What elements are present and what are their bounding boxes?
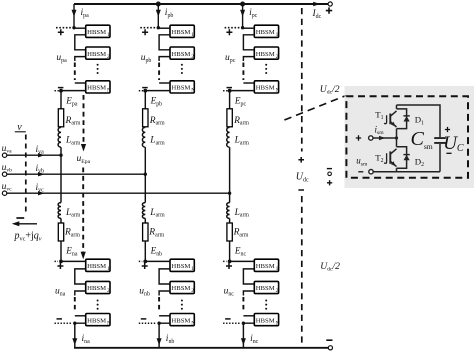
label + (u_pa): [56, 27, 74, 29]
power flow arrow: [16, 223, 37, 225]
inductor L_arm lower b: [142, 203, 145, 219]
wire L-R lower a: [60, 218, 62, 223]
chain dots lower b: [181, 300, 183, 310]
boundary v (dashed): [25, 135, 27, 214]
svg-text:Rarm: Rarm: [149, 116, 165, 127]
svg-text:inb: inb: [166, 334, 175, 345]
wire L-R lower b: [144, 218, 146, 223]
wire node to L_arm lower a: [60, 155, 62, 202]
resistor R_arm upper b: [143, 109, 148, 127]
wire chain b u2-dots: [159, 57, 170, 61]
current i_pa arrow: [72, 10, 77, 17]
svg-text:una: una: [55, 287, 66, 298]
current i_vc arrow: [38, 191, 45, 195]
svg-text:Udc/2: Udc/2: [320, 261, 340, 273]
current Idc arrow: [313, 2, 320, 7]
v underline: [15, 131, 26, 133]
wire L-R lower c: [229, 218, 231, 223]
wire chain c upper dashed: [242, 63, 244, 81]
node AC terminal u_vb: [2, 172, 6, 176]
svg-text:HBSM: HBSM: [171, 85, 190, 92]
wire HBSMN to E_pc: [230, 91, 255, 109]
submodule HBSM1 lower b: [170, 259, 194, 271]
node chain c bottom: [242, 322, 245, 325]
svg-text:Idc: Idc: [312, 9, 322, 20]
wire R to junction lower c: [229, 241, 231, 261]
wire chain c to bottom bus: [243, 323, 254, 348]
submodule HBSM2 upper a: [86, 47, 110, 59]
svg-text:uEpa: uEpa: [77, 154, 91, 165]
svg-text:HBSM: HBSM: [171, 29, 190, 36]
wire chain b l1-2: [159, 269, 170, 284]
svg-text:Rarm: Rarm: [233, 116, 249, 127]
wire L_arm to node b: [144, 147, 146, 174]
resistor R_arm upper c: [227, 109, 232, 127]
callout dashed line: [284, 96, 346, 121]
svg-text:HBSM: HBSM: [171, 317, 190, 324]
submodule HBSMN upper c: [254, 81, 278, 93]
wire L_arm to node c: [229, 147, 231, 193]
svg-text:Larm: Larm: [149, 208, 165, 219]
submodule HBSMN lower c: [254, 314, 278, 326]
submodule HBSM1 lower c: [254, 259, 278, 271]
node E_na bottom: [59, 260, 63, 264]
wire HBSMN to E_pb: [145, 91, 170, 109]
node SM + terminal: [369, 136, 373, 140]
node E_pa top: [59, 89, 63, 93]
wire SM top rail: [397, 105, 441, 137]
arm voltage u_Ena dashed arrow: [82, 168, 84, 253]
current i_nb arrow: [157, 338, 162, 345]
wire bottom DC bus: [74, 347, 328, 349]
chain dots lower c: [265, 300, 267, 310]
svg-text:Rarm: Rarm: [64, 228, 80, 239]
svg-text:2: 2: [107, 54, 110, 60]
svg-text:HBSM: HBSM: [256, 51, 275, 58]
svg-text:upb: upb: [141, 53, 152, 64]
wire chain c u2-dots: [243, 57, 254, 61]
wire chain b upper dashed: [158, 63, 160, 81]
wire chain b u1-2: [159, 35, 170, 50]
node u_pb top: [157, 26, 160, 29]
submodule HBSM2 upper c: [254, 47, 278, 59]
svg-text:unc: unc: [224, 287, 235, 298]
submodule HBSM2 lower a: [86, 281, 110, 293]
chain dots lower a: [97, 300, 99, 310]
svg-text:N: N: [107, 88, 111, 94]
svg-text:ivc: ivc: [36, 183, 45, 194]
node E_pb top: [143, 89, 147, 93]
node top bus junction b: [157, 2, 161, 6]
svg-text:Epa: Epa: [65, 96, 78, 108]
svg-text:N: N: [107, 320, 111, 326]
boundary v elbow dash: [16, 217, 24, 219]
wire chain c lower dashed: [242, 297, 244, 312]
label - (Udc): [298, 189, 304, 191]
svg-text:Rarm: Rarm: [65, 116, 81, 127]
wire DC midline upper (dashed): [301, 8, 303, 152]
current i_pc arrow: [240, 10, 245, 17]
chain dots upper b: [181, 64, 183, 74]
svg-text:1: 1: [191, 266, 194, 272]
wire chain b lower dashed: [158, 297, 160, 312]
node SM - terminal: [369, 170, 373, 174]
svg-text:HBSM: HBSM: [87, 263, 106, 270]
transistor T1 (IGBT): [396, 105, 398, 138]
svg-text:Enc: Enc: [234, 245, 247, 257]
wire chain c l1-2: [243, 269, 254, 284]
current i_na arrow: [72, 338, 77, 345]
label + (midpoint): [327, 180, 332, 185]
svg-text:N: N: [191, 320, 195, 326]
node phase a: [59, 154, 62, 157]
inset dashed border: [346, 96, 468, 178]
node top bus junction c: [241, 2, 245, 6]
svg-text:Rarm: Rarm: [233, 228, 249, 239]
svg-text:2: 2: [107, 288, 110, 294]
submodule HBSM1 upper b: [170, 25, 194, 37]
svg-text:1: 1: [276, 32, 279, 38]
wire HBSMN to E_pa: [61, 91, 86, 109]
submodule HBSMN lower b: [170, 314, 194, 326]
wire SM input: [373, 137, 396, 139]
node chain b bottom: [157, 322, 160, 325]
node u_pa top: [72, 26, 75, 29]
svg-text:pvc+jqv: pvc+jqv: [14, 231, 42, 243]
svg-text:ivb: ivb: [36, 164, 45, 175]
svg-text:Larm: Larm: [65, 208, 81, 219]
svg-text:ipa: ipa: [81, 8, 90, 19]
svg-text:upc: upc: [225, 53, 236, 64]
resistor R_arm lower b: [143, 223, 148, 241]
node u_pc top: [241, 26, 244, 29]
wire top DC bus: [74, 3, 328, 5]
label + (u_na): [57, 263, 63, 269]
submodule HBSM2 upper b: [170, 47, 194, 59]
svg-text:HBSM: HBSM: [87, 85, 106, 92]
wire R to junction lower a: [60, 241, 62, 261]
label - (u_pa): [58, 87, 64, 89]
submodule HBSM1 lower a: [86, 259, 110, 271]
svg-text:uvc: uvc: [2, 182, 13, 193]
svg-text:ina: ina: [82, 334, 91, 345]
wire node to L_arm lower c: [229, 193, 231, 202]
wire AC phase a: [7, 154, 61, 156]
svg-text:1: 1: [276, 266, 279, 272]
label + (u_nb): [142, 263, 148, 269]
wire DC midline lower (dashed): [301, 196, 303, 345]
wire chain b l2-dots: [159, 291, 170, 296]
submodule HBSM1 upper a: [86, 25, 110, 37]
svg-text:2: 2: [276, 54, 279, 60]
label + (U_C): [445, 127, 450, 132]
svg-text:1: 1: [107, 32, 110, 38]
node E_nb bottom: [143, 260, 147, 264]
chain dots upper a: [97, 64, 99, 74]
inductor L_arm upper a: [58, 127, 61, 147]
svg-text:N: N: [276, 320, 280, 326]
submodule HBSM1 upper c: [254, 25, 278, 37]
wire AC phase c: [7, 192, 230, 194]
wire chain c l2-dots: [243, 291, 254, 296]
svg-text:iva: iva: [36, 145, 45, 156]
wire chain a u1-2: [75, 35, 86, 50]
svg-text:unb: unb: [139, 287, 150, 298]
label - (u_nb): [141, 318, 147, 320]
svg-text:1: 1: [191, 32, 194, 38]
arm voltage u_Epa dashed arrow: [83, 95, 85, 144]
label - (midpoint): [327, 168, 332, 170]
svg-text:HBSM: HBSM: [87, 317, 106, 324]
wire phase a top drop: [73, 4, 75, 28]
wire chain a l2-dots: [75, 291, 86, 296]
svg-text:HBSM: HBSM: [256, 285, 275, 292]
resistor R_arm lower a: [58, 223, 63, 241]
svg-text:Larm: Larm: [149, 136, 165, 147]
submodule HBSM2 lower b: [170, 281, 194, 293]
wire chain a lower dashed: [74, 297, 76, 312]
current i_va arrow: [38, 153, 45, 157]
wire chain a l1-2: [75, 269, 86, 284]
label + (u_pc): [225, 27, 243, 29]
wire R to junction lower b: [144, 241, 146, 261]
svg-text:HBSM: HBSM: [256, 317, 275, 324]
label + (Udc): [298, 157, 304, 163]
wire L_arm to node a: [60, 147, 62, 155]
svg-text:Larm: Larm: [234, 136, 250, 147]
wire AC phase b: [7, 173, 145, 175]
svg-text:ipc: ipc: [249, 8, 258, 19]
wire SM bottom rail: [374, 171, 441, 173]
svg-text:Rarm: Rarm: [148, 228, 164, 239]
transistor T2 (IGBT): [396, 138, 398, 172]
svg-text:Enb: Enb: [150, 245, 163, 257]
svg-text:HBSM: HBSM: [256, 85, 275, 92]
label + (u_pb): [140, 27, 158, 29]
svg-text:2: 2: [276, 288, 279, 294]
svg-text:Udc: Udc: [296, 172, 309, 184]
svg-text:inc: inc: [250, 334, 259, 345]
submodule HBSM2 lower c: [254, 281, 278, 293]
label + (u_nc): [226, 263, 232, 269]
inductor L_arm lower a: [58, 203, 61, 219]
submodule HBSMN upper b: [170, 81, 194, 93]
svg-text:uva: uva: [2, 144, 13, 155]
svg-text:HBSM: HBSM: [256, 29, 275, 36]
svg-text:2: 2: [191, 288, 194, 294]
inductor L_arm lower c: [227, 203, 230, 219]
label - (DC terminal): [326, 339, 332, 341]
svg-text:N: N: [191, 88, 195, 94]
wire phase b top drop: [157, 4, 159, 28]
chain dots upper c: [265, 64, 267, 74]
node SM midpoint: [395, 136, 398, 139]
node DC- terminal: [328, 346, 332, 350]
inductor L_arm upper c: [227, 127, 230, 147]
label - (u_pb): [142, 87, 148, 89]
node AC terminal u_va: [2, 153, 6, 157]
wire chain c u1-2: [243, 35, 254, 50]
node E_nc bottom: [228, 260, 232, 264]
svg-text:N: N: [276, 88, 280, 94]
label - (u_pc): [227, 87, 233, 89]
svg-text:HBSM: HBSM: [87, 285, 106, 292]
svg-text:HBSM: HBSM: [87, 51, 106, 58]
svg-text:ipb: ipb: [165, 8, 174, 19]
svg-text:HBSM: HBSM: [171, 51, 190, 58]
label - (SM input): [358, 171, 363, 173]
resistor R_arm upper a: [58, 109, 63, 127]
svg-text:HBSM: HBSM: [87, 29, 106, 36]
label - (U_C): [446, 152, 451, 154]
wire node to L_arm lower b: [144, 174, 146, 202]
capacitor C_sm: [434, 138, 446, 143]
node phase b: [144, 173, 147, 176]
label - (u_na): [57, 318, 63, 320]
submodule HBSMN lower a: [86, 314, 110, 326]
svg-text:HBSM: HBSM: [171, 285, 190, 292]
node DC+ terminal: [328, 2, 332, 6]
svg-text:HBSM: HBSM: [171, 263, 190, 270]
inductor L_arm upper b: [142, 127, 145, 147]
svg-text:Ena: Ena: [65, 245, 78, 257]
svg-text:uvb: uvb: [2, 163, 13, 174]
label - (u_nc): [225, 318, 231, 320]
node chain a bottom: [73, 322, 76, 325]
current i_pb arrow: [156, 10, 161, 17]
svg-text:1: 1: [107, 266, 110, 272]
node E_pc top: [228, 89, 232, 93]
svg-text:upa: upa: [56, 53, 67, 64]
svg-text:Epc: Epc: [234, 96, 247, 108]
svg-text:Epb: Epb: [150, 96, 163, 108]
wire chain b to bottom bus: [159, 323, 170, 348]
label + (SM input): [356, 135, 361, 140]
svg-text:Larm: Larm: [234, 208, 250, 219]
resistor R_arm lower c: [227, 223, 232, 241]
svg-text:Larm: Larm: [65, 136, 81, 147]
label + (DC terminal): [326, 7, 332, 13]
svg-text:HBSM: HBSM: [256, 263, 275, 270]
wire chain a upper dashed: [74, 63, 76, 81]
current i_vb arrow: [38, 172, 45, 176]
svg-text:2: 2: [191, 54, 194, 60]
node DC midpoint terminal: [328, 172, 332, 176]
wire phase c top drop: [242, 4, 244, 28]
node AC terminal u_vc: [2, 191, 6, 195]
svg-text:Udc/2: Udc/2: [320, 84, 340, 96]
wire chain a u2-dots: [75, 57, 86, 61]
inset background: [345, 86, 474, 188]
node phase c: [228, 192, 231, 195]
submodule HBSMN upper a: [86, 81, 110, 93]
current i_nc arrow: [241, 338, 246, 345]
wire chain a to bottom bus: [75, 323, 86, 348]
